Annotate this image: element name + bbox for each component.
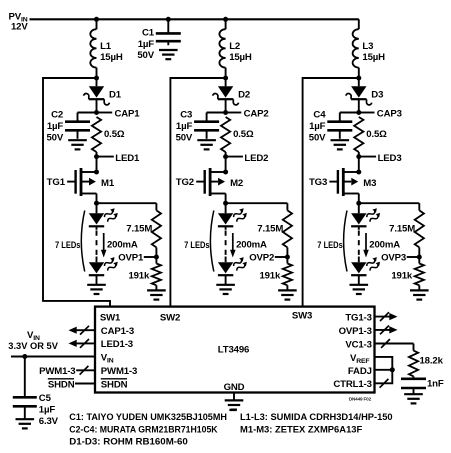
resistor 191k (ch2)	[286, 257, 288, 264]
svg-text:PWM1-3: PWM1-3	[101, 366, 137, 377]
svg-text:D1: D1	[109, 90, 122, 101]
brace 7 LEDs (ch3)	[344, 211, 347, 272]
svg-text:GND: GND	[224, 382, 245, 393]
led string top LED (ch2)	[225, 203, 227, 213]
svg-text:TG3: TG3	[309, 177, 327, 188]
svg-text:15µH: 15µH	[229, 52, 252, 63]
wire dashed LED string (ch2)	[225, 226, 227, 230]
svg-text:C2: C2	[51, 110, 63, 121]
resistor 7.15M (ch2)	[286, 203, 288, 210]
resistor 191k (ch1)	[155, 257, 157, 264]
svg-text:SW2: SW2	[160, 313, 180, 324]
svg-text:M3: M3	[363, 178, 376, 189]
svg-text:1nF: 1nF	[427, 378, 444, 389]
svg-text:TG1-3: TG1-3	[345, 313, 371, 324]
wire source to R7.15M	[359, 202, 420, 204]
svg-text:3.3V OR 5V: 3.3V OR 5V	[8, 340, 58, 351]
capacitor C3	[207, 112, 226, 114]
wire source to R7.15M	[97, 202, 157, 204]
pin CAP1-3	[72, 329, 96, 331]
pin FADJ wire	[375, 369, 393, 371]
svg-text:200mA: 200mA	[369, 239, 400, 250]
svg-text:50V: 50V	[176, 132, 193, 143]
current arrow 200mA (ch3)	[365, 233, 367, 252]
svg-text:50V: 50V	[137, 50, 154, 61]
ground for C3	[197, 139, 216, 141]
resistor 0.5 ohm sense (ch2)	[221, 117, 230, 152]
capacitor C1	[167, 19, 169, 33]
wire SW2 to pin	[170, 78, 225, 307]
svg-text:1µF: 1µF	[309, 121, 326, 132]
svg-text:0.5Ω: 0.5Ω	[104, 129, 125, 140]
resistor 18.2k	[413, 344, 415, 351]
node OVP1	[144, 256, 157, 258]
svg-text:12V: 12V	[11, 22, 28, 33]
svg-text:CAP1-3: CAP1-3	[101, 326, 134, 337]
svg-text:D2: D2	[238, 90, 250, 101]
svg-text:M2: M2	[230, 178, 243, 189]
wire dashed LED string (ch3)	[358, 226, 360, 230]
ground for GND pin	[225, 399, 244, 401]
pin GND lead	[233, 393, 235, 400]
ground for C1	[159, 49, 178, 51]
svg-text:VC1-3: VC1-3	[345, 339, 371, 350]
svg-text:TG2: TG2	[176, 177, 194, 188]
wire dashed LED string (ch1)	[96, 226, 98, 230]
capacitor C4	[340, 112, 359, 114]
wire PVIN top rail	[30, 18, 359, 20]
svg-text:D1-D3: ROHM RB160M-60: D1-D3: ROHM RB160M-60	[69, 437, 188, 447]
led string bottom LED (ch1)	[89, 262, 104, 273]
node LED3	[356, 154, 361, 159]
svg-text:C1: C1	[142, 27, 155, 38]
led string top LED (ch1)	[96, 203, 98, 213]
svg-text:200mA: 200mA	[107, 239, 138, 250]
svg-text:C3: C3	[180, 110, 192, 121]
svg-text:191k: 191k	[259, 271, 281, 282]
node M2 source junction	[223, 201, 228, 206]
svg-text:LED1-3: LED1-3	[101, 339, 133, 350]
ground for 1nF	[404, 393, 423, 395]
svg-text:50V: 50V	[309, 132, 326, 143]
transistor M1 (PMOS)	[96, 157, 98, 172]
svg-text:SW1: SW1	[100, 313, 121, 324]
svg-text:CAP2: CAP2	[244, 109, 269, 120]
resistor 7.15M (ch3)	[418, 203, 420, 210]
pin OVP1-3	[375, 329, 395, 331]
svg-text:OVP1-3: OVP1-3	[339, 326, 372, 337]
svg-text:OVP3: OVP3	[381, 253, 406, 264]
op-amp U1 LT3496 box	[95, 307, 375, 393]
resistor 7.15M (ch1)	[155, 203, 157, 210]
capacitor 1nF	[401, 377, 426, 380]
wire source to R7.15M	[226, 202, 288, 204]
node junction SW2	[223, 76, 228, 81]
svg-text:DN449 F02: DN449 F02	[349, 396, 372, 401]
svg-text:C4: C4	[313, 110, 326, 121]
node OVP3	[407, 256, 420, 258]
brace 7 LEDs (ch2)	[210, 211, 213, 272]
wire SW1 to pin	[43, 78, 110, 307]
svg-text:L3: L3	[362, 41, 373, 52]
svg-text:6.3V: 6.3V	[39, 416, 59, 427]
svg-text:7.15M: 7.15M	[257, 224, 283, 235]
ground for C2	[68, 139, 87, 141]
svg-text:L1-L3: SUMIDA CDRH3D14/HP-150: L1-L3: SUMIDA CDRH3D14/HP-150	[240, 412, 393, 422]
brace 7 LEDs (ch1)	[81, 211, 84, 272]
ground for 191k (ch1)	[147, 289, 166, 291]
ground for 191k (ch2)	[278, 289, 297, 291]
svg-text:SHDN: SHDN	[48, 379, 75, 390]
wire VIN	[11, 356, 95, 358]
svg-text:OVP1: OVP1	[118, 253, 144, 264]
svg-text:191k: 191k	[128, 271, 150, 282]
ground for LED string (ch1)	[87, 284, 106, 286]
node LED1	[94, 154, 99, 159]
svg-text:CAP3: CAP3	[377, 109, 402, 120]
svg-text:0.5Ω: 0.5Ω	[233, 129, 254, 140]
wire SW3 to pin	[303, 78, 359, 307]
inductor L2	[225, 19, 227, 29]
resistor 191k (ch3)	[418, 257, 420, 264]
svg-text:SW3: SW3	[292, 311, 312, 322]
node CAP3	[356, 110, 361, 115]
svg-text:LED1: LED1	[115, 153, 140, 164]
svg-text:7 LEDs: 7 LEDs	[317, 240, 343, 251]
pin SHDN	[75, 383, 95, 385]
node junction SW3	[356, 76, 361, 81]
svg-text:PWM1-3: PWM1-3	[39, 366, 75, 377]
svg-text:TG1: TG1	[47, 177, 66, 188]
current arrow 200mA (ch1)	[103, 233, 105, 252]
diode D2	[225, 78, 227, 86]
svg-text:1µF: 1µF	[47, 121, 64, 132]
svg-text:15µH: 15µH	[100, 52, 123, 63]
svg-text:FADJ: FADJ	[348, 366, 372, 377]
note superscript mark	[229, 409, 236, 411]
node junction L1 on rail	[94, 17, 99, 22]
svg-text:LED3: LED3	[378, 153, 402, 164]
svg-text:200mA: 200mA	[236, 239, 267, 250]
svg-text:CAP1: CAP1	[115, 109, 141, 120]
svg-text:7 LEDs: 7 LEDs	[55, 240, 81, 251]
svg-text:M1-M3: ZETEX ZXMP6A13F: M1-M3: ZETEX ZXMP6A13F	[240, 424, 363, 434]
diode D1	[96, 78, 98, 86]
node junction C1 on rail	[166, 17, 171, 22]
node CAP2	[223, 110, 228, 115]
svg-text:L1: L1	[100, 41, 112, 52]
svg-text:LT3496: LT3496	[218, 345, 249, 356]
diode D3	[358, 78, 360, 86]
capacitor C5	[24, 357, 26, 398]
svg-text:1µF: 1µF	[138, 39, 155, 50]
svg-text:7.15M: 7.15M	[389, 224, 415, 235]
pin VREF wire	[375, 357, 393, 370]
node M3 source junction	[356, 201, 361, 206]
led string top LED (ch3)	[358, 203, 360, 213]
svg-text:7.15M: 7.15M	[126, 224, 152, 235]
node junction L2 on rail	[223, 17, 228, 22]
current arrow 200mA (ch2)	[232, 233, 234, 252]
inductor L3	[358, 19, 360, 29]
svg-text:SHDN: SHDN	[101, 379, 128, 390]
node OVP2	[275, 256, 288, 258]
svg-text:50V: 50V	[46, 132, 63, 143]
inductor L1	[96, 19, 98, 29]
svg-text:7 LEDs: 7 LEDs	[184, 240, 210, 251]
ground for C5	[16, 418, 35, 420]
ground for C4	[331, 139, 350, 141]
svg-text:0.5Ω: 0.5Ω	[366, 129, 387, 140]
node junction C5	[22, 354, 27, 359]
svg-text:OVP2: OVP2	[249, 253, 274, 264]
ground for LED string (ch2)	[216, 284, 235, 286]
node M1 source junction	[94, 201, 99, 206]
svg-text:15µH: 15µH	[362, 52, 385, 63]
resistor 0.5 ohm sense (ch1)	[92, 117, 101, 152]
svg-text:LED2: LED2	[244, 153, 268, 164]
transistor M2 (PMOS)	[225, 157, 227, 172]
capacitor C2	[78, 112, 97, 114]
node junction SW1	[94, 76, 99, 81]
node LED2	[223, 154, 228, 159]
svg-text:M1: M1	[101, 178, 115, 189]
pin TG1-3	[375, 316, 395, 318]
svg-text:1µF: 1µF	[39, 404, 56, 415]
led string bottom LED (ch3)	[351, 262, 366, 273]
svg-text:CTRL1-3: CTRL1-3	[333, 379, 371, 390]
pin VC1-3 wire	[375, 343, 414, 345]
pin PWM1-3	[76, 369, 95, 371]
svg-text:C2-C4: MURATA GRM21BR71H105K: C2-C4: MURATA GRM21BR71H105K	[69, 424, 218, 434]
svg-text:C5: C5	[39, 393, 52, 404]
svg-text:C1: TAIYO YUDEN UMK325BJ105MH: C1: TAIYO YUDEN UMK325BJ105MH	[69, 412, 227, 422]
ground for 191k (ch3)	[410, 289, 429, 291]
pin CTRL1-3 wire	[375, 370, 393, 384]
svg-text:191k: 191k	[391, 271, 413, 282]
pin LED1-3	[72, 342, 96, 344]
resistor 0.5 ohm sense (ch3)	[354, 117, 363, 152]
svg-text:L2: L2	[229, 41, 240, 52]
ground for LED string (ch3)	[350, 284, 369, 286]
node CAP1	[94, 110, 99, 115]
svg-text:18.2k: 18.2k	[420, 356, 444, 367]
svg-text:D3: D3	[371, 90, 383, 101]
transistor M3 (PMOS)	[358, 157, 360, 172]
led string bottom LED (ch2)	[218, 262, 233, 273]
svg-text:1µF: 1µF	[176, 121, 193, 132]
